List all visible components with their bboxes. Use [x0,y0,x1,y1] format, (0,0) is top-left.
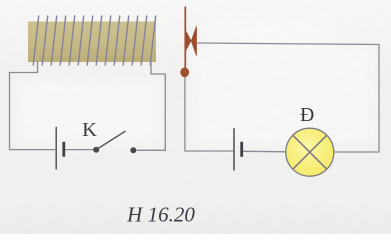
svg-text:Đ: Đ [300,105,314,126]
pivot node (brown dot) [180,68,189,78]
wire from pivot dot down to bottom of right circuit [185,77,233,151]
wire switch K up to coil right lead [136,61,165,150]
battery B1 (left cell) [56,127,64,170]
wire battery B1 to switch K [65,149,94,151]
coil L1 (electromagnet winding) [28,16,156,65]
battery B2 (right cell) [234,128,242,170]
svg-text:H 16.20: H 16.20 [126,203,195,227]
switch K (open) [93,131,136,153]
lamp Đ (circle with X) [286,128,334,176]
svg-text:K: K [82,119,97,141]
wire lamp right side up and across to contact [197,43,379,152]
wire from coil left lead to left side down to battery [10,61,56,150]
contact points (bow-tie) [186,27,197,56]
contact strip (vertical brown reed, top) [184,7,186,69]
wire battery B2 to lamp [243,150,286,153]
